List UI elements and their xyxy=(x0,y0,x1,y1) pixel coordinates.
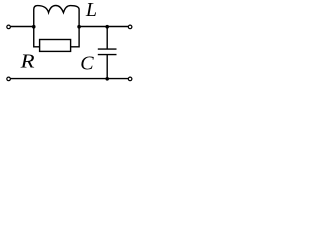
wire top-left: input to node A xyxy=(11,26,34,28)
terminal bottom-left xyxy=(7,77,11,81)
terminal top-right xyxy=(128,25,132,29)
capacitor C bottom lead xyxy=(106,55,108,79)
svg-text:L: L xyxy=(85,0,97,21)
capacitor C top plate xyxy=(98,48,117,50)
resistor R (box) xyxy=(40,40,71,52)
wire node B drop to resistor xyxy=(71,27,80,47)
wire node A drop to resistor xyxy=(34,27,40,47)
junction dot cap bottom node xyxy=(105,77,109,81)
inductor L (3 humps between node A and node B) xyxy=(34,6,79,27)
terminal top-left xyxy=(7,25,11,29)
capacitor C bottom plate xyxy=(98,54,117,56)
svg-text:C: C xyxy=(80,52,94,74)
terminal bottom-right xyxy=(128,77,132,81)
wire bottom rail xyxy=(11,78,129,80)
capacitor C top lead xyxy=(106,27,108,50)
junction dot node B xyxy=(77,25,81,29)
svg-text:R: R xyxy=(20,50,35,72)
junction dot node A xyxy=(32,25,36,29)
junction dot cap top node xyxy=(105,25,109,29)
wire top-right: node B to output xyxy=(79,26,128,28)
